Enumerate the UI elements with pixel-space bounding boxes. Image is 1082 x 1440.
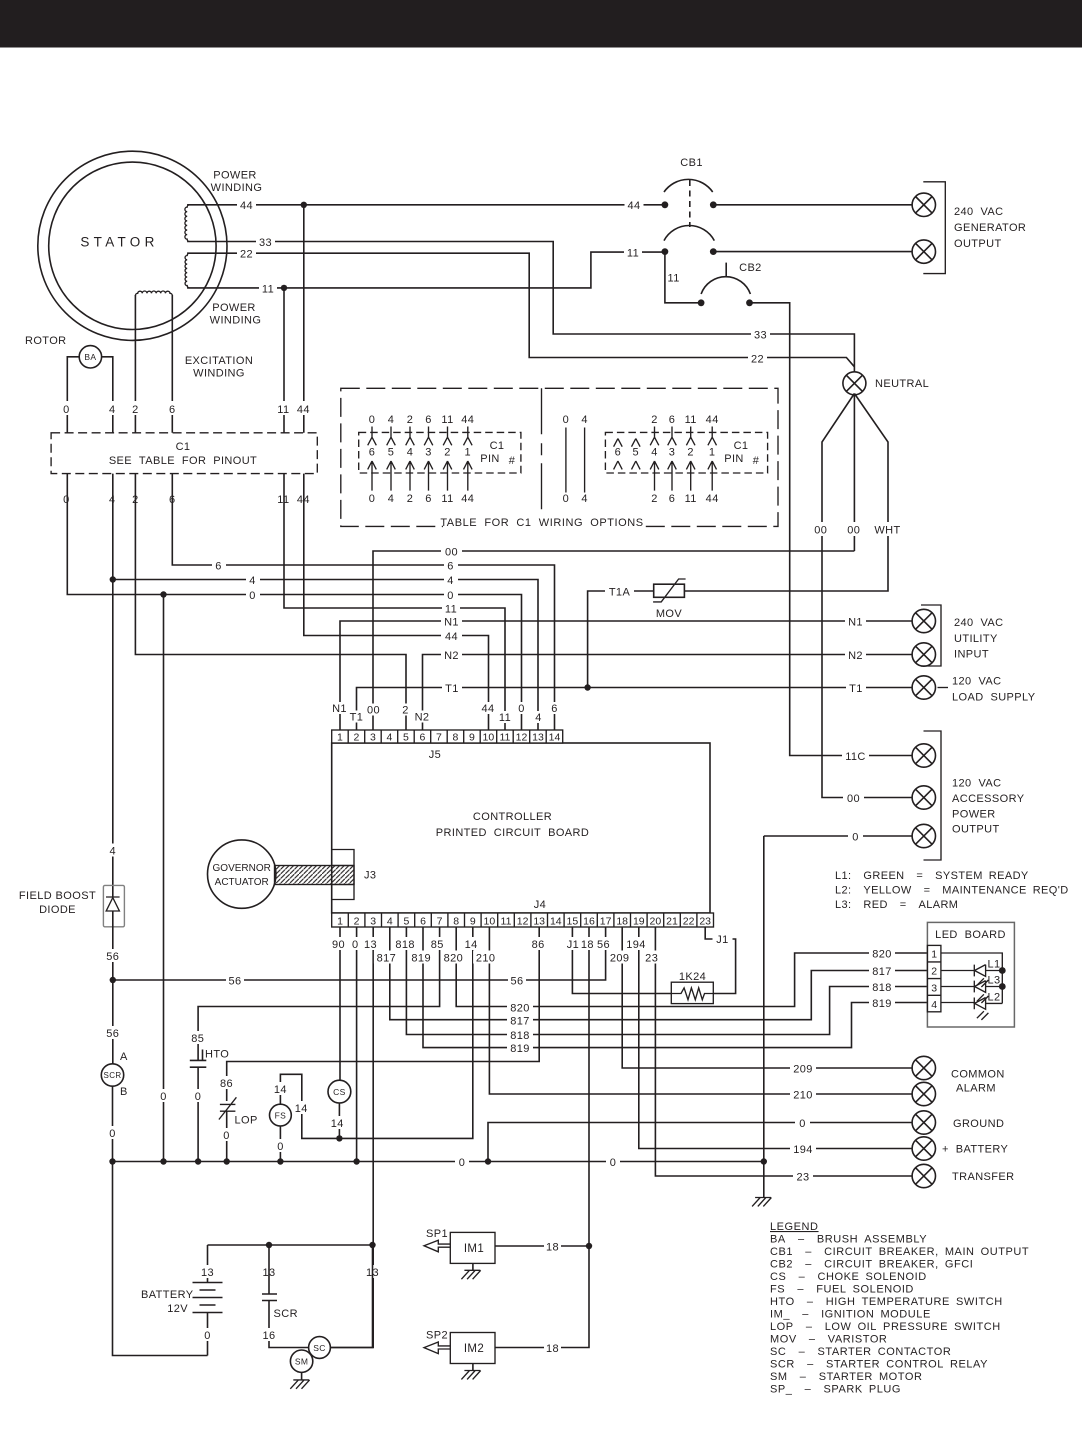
- svg-text:10: 10: [484, 915, 496, 927]
- CB1 tie bar (dashed): [689, 180, 691, 227]
- label 194 (pin19): [624, 937, 649, 950]
- stator inner ring: [49, 162, 216, 329]
- label 11 (CB1 feed): [624, 246, 642, 259]
- label 23 near terminal: [793, 1170, 813, 1183]
- svg-text:CB1: CB1: [680, 157, 703, 169]
- label 11C: [842, 749, 869, 762]
- svg-text:5: 5: [403, 732, 409, 744]
- svg-text:0: 0: [249, 590, 256, 602]
- svg-text:820: 820: [872, 949, 892, 961]
- svg-text:817: 817: [510, 1016, 530, 1028]
- terminal T1: [912, 676, 935, 699]
- svg-text:C1: C1: [734, 440, 749, 452]
- label 818 (pin5): [393, 937, 418, 950]
- svg-text:6: 6: [215, 561, 222, 573]
- label 0 below FS: [274, 1139, 288, 1152]
- wire SCR bottom to battery return: [113, 1086, 208, 1355]
- ground symbol (IM2): [461, 1371, 480, 1380]
- wire 820: J4 pin8 to LED pin1: [456, 927, 927, 1007]
- label N2 on bus: [441, 648, 462, 661]
- svg-text:T1: T1: [849, 683, 863, 695]
- IM1 ground lead: [472, 1263, 474, 1270]
- svg-text:194: 194: [626, 939, 646, 951]
- svg-text:4: 4: [931, 999, 937, 1011]
- svg-text:L1: GREEN = SYSTEM READY: L1: GREEN = SYSTEM READY: [835, 870, 1029, 882]
- junction 56 bus: [110, 977, 116, 983]
- svg-text:CS – CHOKE SOLENOID: CS – CHOKE SOLENOID: [770, 1271, 927, 1283]
- label 85 (pin7): [428, 937, 446, 950]
- svg-text:4: 4: [388, 493, 395, 505]
- terminal 210 common alarm: [912, 1082, 935, 1105]
- svg-text:IM1: IM1: [464, 1243, 484, 1255]
- wire 18: J4 pin16 to IM1/IM2: [495, 927, 589, 1348]
- starter control relay SCR coil: [262, 1245, 309, 1348]
- svg-text:POWER: POWER: [212, 302, 256, 314]
- svg-text:2: 2: [132, 404, 139, 416]
- wire 0: J4 pin2 to 0 bus: [356, 927, 358, 1162]
- svg-text:6: 6: [369, 447, 376, 459]
- terminal 11C: [912, 744, 935, 767]
- label 209 near terminal: [790, 1062, 816, 1075]
- svg-text:817: 817: [872, 966, 892, 978]
- svg-text:IM_ – IGNITION MODULE: IM_ – IGNITION MODULE: [770, 1309, 931, 1321]
- svg-text:MOV: MOV: [656, 608, 683, 620]
- wire BA right to C1 pin 4: [102, 357, 113, 433]
- svg-text:SCR – STARTER CONTROL RELAY: SCR – STARTER CONTROL RELAY: [770, 1359, 988, 1371]
- svg-text:SEE TABLE FOR PINOUT: SEE TABLE FOR PINOUT: [109, 455, 257, 467]
- svg-text:818: 818: [395, 939, 415, 951]
- fuel solenoid FS: [270, 1104, 292, 1126]
- label 209 (pin18): [607, 951, 632, 964]
- svg-text:0: 0: [799, 1118, 806, 1130]
- LED L1: [974, 965, 1002, 977]
- starter contactor SC: [309, 1337, 331, 1359]
- label 820 on wire: [869, 947, 895, 960]
- svg-text:LOAD SUPPLY: LOAD SUPPLY: [952, 692, 1036, 704]
- wire CB1 pole2 to terminal: [713, 251, 912, 253]
- svg-text:1: 1: [709, 447, 716, 459]
- wire 44: C1 to J5 pin10: [304, 474, 489, 730]
- svg-text:EXCITATION: EXCITATION: [185, 355, 253, 367]
- svg-text:14: 14: [549, 732, 561, 744]
- svg-text:819: 819: [510, 1043, 530, 1055]
- label 90: [330, 937, 348, 950]
- svg-text:14: 14: [550, 915, 562, 927]
- svg-text:8: 8: [452, 732, 458, 744]
- label 0 on SCR return: [106, 1126, 120, 1139]
- high temperature switch HTO: [190, 1050, 207, 1068]
- svg-text:13: 13: [364, 939, 377, 951]
- wire pin2 to LED L1: [941, 970, 974, 972]
- svg-text:0: 0: [447, 590, 454, 602]
- connector C1 dashed box: [51, 433, 317, 474]
- SM ground lead: [301, 1372, 303, 1380]
- svg-text:L2: YELLOW = MAINTENANCE RE: L2: YELLOW = MAINTENANCE REQ'D: [835, 885, 1069, 897]
- label 11 on bus: [442, 602, 460, 615]
- CB2 actuator tick: [725, 263, 727, 277]
- bus 4 to J5 pin13: [113, 580, 538, 731]
- ground bus 0 riser to GROUND terminal: [488, 1123, 912, 1162]
- svg-text:5: 5: [633, 447, 640, 459]
- svg-text:6: 6: [551, 703, 558, 715]
- wire T1A: MOV to T1 bus: [588, 591, 654, 688]
- label 00 (center riser): [844, 522, 864, 536]
- svg-text:1: 1: [337, 732, 343, 744]
- svg-text:PIN: PIN: [480, 453, 500, 465]
- spark plug SP1 arrow: [424, 1240, 450, 1252]
- svg-text:6: 6: [420, 915, 426, 927]
- svg-text:44: 44: [461, 414, 474, 426]
- svg-text:209: 209: [793, 1064, 813, 1076]
- svg-text:56: 56: [106, 951, 119, 963]
- svg-text:B: B: [120, 1086, 128, 1098]
- svg-text:817: 817: [377, 953, 397, 965]
- svg-text:23: 23: [645, 953, 658, 965]
- label 210 near terminal: [790, 1088, 816, 1101]
- wire CB1 pole1 to terminal: [713, 204, 912, 206]
- brush assembly BA: [79, 346, 101, 368]
- svg-text:MOV – VARISTOR: MOV – VARISTOR: [770, 1334, 887, 1346]
- svg-text:12: 12: [516, 732, 528, 744]
- terminal 240VAC gen output A: [912, 193, 935, 216]
- svg-text:16: 16: [262, 1330, 275, 1342]
- wire 11 stator to CB1 pole2: [187, 252, 665, 288]
- LED L3: [974, 981, 1002, 993]
- svg-text:0: 0: [277, 1141, 284, 1153]
- label 33 (coil end): [256, 235, 275, 248]
- wire 44 stator to CB1: [187, 204, 665, 206]
- label 6 right: [444, 559, 458, 572]
- battery top lead: [207, 1245, 209, 1283]
- svg-text:0: 0: [852, 832, 859, 844]
- svg-text:CONTROLLER: CONTROLLER: [473, 811, 552, 823]
- svg-text:8: 8: [453, 915, 459, 927]
- svg-text:#: #: [509, 455, 516, 467]
- junction 18 branch: [586, 1243, 592, 1249]
- svg-text:14: 14: [465, 939, 478, 951]
- label 13 (SCR coil): [261, 1265, 278, 1278]
- label 18 (IM2): [544, 1341, 561, 1354]
- starter contactor coil SCR: [101, 1064, 123, 1086]
- svg-text:LOP – LOW OIL PRESSURE SWITC: LOP – LOW OIL PRESSURE SWITCH: [770, 1321, 1001, 1333]
- svg-text:4: 4: [387, 915, 393, 927]
- svg-text:N2: N2: [415, 712, 430, 724]
- label 00 accessory: [843, 791, 864, 804]
- junction SCR coil: [266, 1242, 272, 1248]
- svg-text:10: 10: [483, 732, 495, 744]
- svg-text:FS – FUEL SOLENOID: FS – FUEL SOLENOID: [770, 1284, 914, 1296]
- svg-text:11: 11: [441, 493, 453, 505]
- svg-text:14: 14: [274, 1084, 287, 1096]
- wire CB1 pole2 down to CB2: [665, 252, 701, 303]
- svg-text:STATOR: STATOR: [80, 235, 158, 250]
- label 44 near CB1: [625, 198, 644, 211]
- svg-text:L2: L2: [988, 992, 1001, 1004]
- svg-text:0: 0: [160, 1091, 167, 1103]
- label 56 left: [226, 974, 244, 987]
- svg-text:11: 11: [627, 248, 639, 260]
- label 00 on bus: [441, 545, 462, 558]
- junction dots on 0 bus: [109, 1158, 115, 1164]
- svg-text:11: 11: [441, 414, 453, 426]
- CB1 pole 2 contacts: [662, 248, 669, 255]
- junction 13 riser: [369, 1242, 375, 1248]
- terminal 0 accessory: [912, 824, 935, 847]
- svg-text:11: 11: [499, 732, 510, 744]
- svg-text:210: 210: [793, 1090, 813, 1102]
- svg-text:0: 0: [459, 1157, 466, 1169]
- label T1A: [605, 585, 634, 598]
- bus 56 to J4 pin17: [113, 927, 606, 980]
- bus 0 (bottom): [113, 1161, 764, 1163]
- label 14 above FS: [272, 1082, 289, 1095]
- label 18 (pin16): [579, 937, 596, 950]
- svg-text:33: 33: [754, 330, 767, 342]
- label 14 mid riser: [293, 1101, 310, 1114]
- svg-text:L1: L1: [988, 959, 1001, 971]
- svg-text:INPUT: INPUT: [954, 649, 989, 661]
- svg-text:11C: 11C: [845, 751, 866, 763]
- label 4 left: [246, 573, 260, 586]
- breaker CB2 arc: [701, 277, 750, 294]
- CB1 pole 1 contacts: [662, 201, 669, 208]
- svg-text:44: 44: [706, 414, 719, 426]
- svg-text:11: 11: [445, 604, 457, 616]
- label 194 near terminal: [790, 1142, 816, 1155]
- bracket accessory output: [924, 731, 942, 860]
- label 56 below bus: [104, 1026, 122, 1039]
- ground symbol (SM): [290, 1380, 309, 1389]
- label 0 left: [246, 588, 260, 601]
- wire 22 stator to neutral: [187, 253, 854, 367]
- svg-text:6: 6: [169, 404, 176, 416]
- wire 209: J4 pin18 to terminal: [622, 927, 912, 1068]
- L2 emission marks: [977, 1011, 989, 1020]
- svg-text:21: 21: [666, 915, 678, 927]
- FS lower lead: [279, 1126, 281, 1162]
- label 0 below LOP: [220, 1128, 234, 1141]
- diode symbol: [106, 897, 120, 911]
- battery BATTERY 12V: [193, 1283, 223, 1313]
- svg-text:13: 13: [532, 732, 544, 744]
- label 0 (pin2): [349, 937, 361, 950]
- svg-text:210: 210: [476, 953, 496, 965]
- svg-text:4: 4: [110, 846, 117, 858]
- svg-text:23: 23: [699, 915, 711, 927]
- svg-text:7: 7: [436, 732, 442, 744]
- L1 emission marks: [977, 978, 989, 987]
- svg-text:56: 56: [106, 1028, 119, 1040]
- wire excitation right to C1 pin 6: [171, 295, 173, 433]
- svg-text:C1: C1: [490, 440, 505, 452]
- label 817 (pin4): [374, 951, 399, 964]
- label 11 (coil end): [259, 282, 277, 295]
- junction 11 riser: [281, 285, 287, 291]
- LED L2: [974, 998, 1002, 1010]
- label 817 on wire: [869, 964, 895, 977]
- svg-text:DIODE: DIODE: [39, 904, 76, 916]
- wire 11: C1 to J5 pin11: [284, 474, 505, 730]
- svg-text:18: 18: [616, 915, 628, 927]
- svg-text:11: 11: [501, 915, 512, 927]
- svg-text:4: 4: [249, 575, 256, 587]
- neutral riser 00 (center, to bus): [853, 395, 855, 551]
- label 210 (pin10): [473, 951, 498, 964]
- svg-text:WHT: WHT: [874, 525, 900, 537]
- wire 85: J4 pin7 to HTO: [198, 927, 440, 1060]
- svg-text:GOVERNOR: GOVERNOR: [213, 863, 271, 874]
- label 4 right: [444, 573, 458, 586]
- label J1 (elbow): [713, 933, 733, 945]
- wire 13: J4 pin3 to battery bus and SC: [331, 927, 374, 1348]
- label 819 on bus: [507, 1041, 533, 1054]
- label 44: [237, 198, 256, 211]
- svg-text:1: 1: [337, 915, 343, 927]
- svg-text:0: 0: [563, 414, 570, 426]
- neutral riser 00 (left, to accessory): [822, 394, 912, 798]
- svg-text:4: 4: [388, 414, 395, 426]
- svg-text:194: 194: [793, 1144, 813, 1156]
- svg-text:3: 3: [669, 447, 676, 459]
- svg-text:6: 6: [425, 414, 432, 426]
- field boost diode box: [103, 885, 124, 926]
- svg-text:HTO – HIGH TEMPERATURE SWITC: HTO – HIGH TEMPERATURE SWITCH: [770, 1296, 1003, 1308]
- excitation winding coil: [135, 291, 172, 296]
- wire pin3 to LED L3: [941, 986, 974, 988]
- svg-text:GENERATOR: GENERATOR: [954, 222, 1026, 234]
- power winding coil 1: [185, 205, 190, 242]
- svg-text:5: 5: [388, 447, 395, 459]
- wire 11 riser to C1: [283, 288, 285, 433]
- svg-text:4: 4: [581, 414, 588, 426]
- svg-text:22: 22: [240, 249, 253, 261]
- svg-text:T1: T1: [445, 683, 459, 695]
- resistor 1K24 box: [671, 982, 713, 1003]
- svg-text:J1: J1: [716, 934, 728, 946]
- ignition module IM2 box: [450, 1333, 495, 1364]
- label 0 accessory: [848, 830, 863, 843]
- svg-text:44: 44: [481, 703, 494, 715]
- svg-text:6: 6: [669, 493, 676, 505]
- svg-text:CS: CS: [333, 1087, 346, 1097]
- wire 86: J4 pin13 to LOP: [227, 927, 540, 1101]
- label 817 on bus: [507, 1014, 533, 1027]
- label 819 (pin6): [409, 951, 434, 964]
- svg-text:L3: RED = ALARM: L3: RED = ALARM: [835, 899, 958, 911]
- svg-text:818: 818: [510, 1030, 530, 1042]
- svg-text:9: 9: [469, 732, 475, 744]
- svg-text:BA – BRUSH ASSEMBLY: BA – BRUSH ASSEMBLY: [770, 1234, 927, 1246]
- labels above C1: 0 4 2 6 11 44: [59, 401, 74, 415]
- CB2 contacts: [698, 299, 705, 306]
- wire 4: C1 down through 4-bus: [112, 474, 114, 897]
- label T1 near terminal: [846, 681, 866, 694]
- label 16: [261, 1328, 278, 1341]
- breaker CB1 pole 1 arc: [664, 179, 713, 192]
- LED board connector: [927, 945, 941, 1011]
- breaker CB1 pole 2 arc: [664, 226, 714, 241]
- svg-text:4: 4: [109, 404, 116, 416]
- actuator shaft (hatched): [275, 866, 355, 885]
- svg-text:LED BOARD: LED BOARD: [935, 929, 1006, 941]
- svg-text:N1: N1: [444, 617, 459, 629]
- svg-text:2: 2: [651, 493, 658, 505]
- svg-text:3: 3: [370, 732, 376, 744]
- label TABLE FOR C1 WIRING OPTIONS: [443, 514, 643, 528]
- label 18 (IM1): [544, 1240, 561, 1253]
- connector J5: [332, 730, 563, 743]
- terminal 209 common alarm: [912, 1056, 935, 1079]
- svg-text:J5: J5: [429, 749, 441, 761]
- terminal 240VAC gen output B: [912, 240, 935, 263]
- svg-text:1: 1: [465, 447, 472, 459]
- wire pin4 to LED L2: [941, 1002, 974, 1004]
- svg-text:15: 15: [567, 915, 579, 927]
- svg-text:0: 0: [204, 1330, 211, 1342]
- left inner dashed box (C1 pin #): [359, 432, 521, 473]
- svg-text:22: 22: [751, 354, 764, 366]
- controller printed circuit board: [332, 743, 710, 913]
- svg-text:18: 18: [546, 1242, 559, 1254]
- svg-text:56: 56: [597, 939, 610, 951]
- junction L3 anode: [999, 983, 1006, 990]
- svg-text:0: 0: [563, 493, 570, 505]
- svg-text:OUTPUT: OUTPUT: [954, 238, 1002, 250]
- right inner dashed box (C1 pin #): [605, 432, 767, 473]
- label 820 (pin8): [441, 951, 466, 964]
- svg-text:56: 56: [228, 976, 241, 988]
- label 0 (battery return): [201, 1328, 215, 1341]
- svg-text:85: 85: [191, 1033, 204, 1045]
- svg-text:GROUND: GROUND: [953, 1118, 1004, 1130]
- svg-text:11: 11: [262, 284, 274, 296]
- connector J4: [332, 913, 714, 927]
- svg-text:LEGEND: LEGEND: [770, 1221, 819, 1233]
- svg-text:NEUTRAL: NEUTRAL: [875, 378, 929, 390]
- svg-text:6: 6: [615, 447, 622, 459]
- bracket utility input: [921, 605, 941, 666]
- LED common wire from pin1: [941, 953, 1002, 1003]
- svg-text:44: 44: [445, 631, 458, 643]
- svg-text:11: 11: [277, 404, 289, 416]
- label 819 on wire: [869, 996, 895, 1009]
- svg-text:00: 00: [847, 525, 860, 537]
- svg-text:TABLE FOR C1 WIRING OPTION: TABLE FOR C1 WIRING OPTIONS: [440, 517, 643, 529]
- svg-text:POWER: POWER: [213, 170, 257, 182]
- label 0 on bottom bus (left): [455, 1155, 469, 1168]
- 1K24 zigzag: [672, 988, 715, 1000]
- svg-text:BA: BA: [84, 352, 96, 362]
- starter motor SM: [290, 1350, 312, 1372]
- wire 6: C1 to J5 pin14: [172, 474, 554, 730]
- svg-text:2: 2: [402, 705, 409, 717]
- svg-text:00: 00: [367, 705, 380, 717]
- svg-text:6: 6: [425, 493, 432, 505]
- label 56 above bus: [104, 949, 122, 962]
- label N2 near terminal: [845, 648, 866, 661]
- terminal TRANSFER: [912, 1164, 935, 1187]
- ground symbol (main): [752, 1198, 771, 1207]
- svg-text:14: 14: [331, 1118, 344, 1130]
- svg-text:0: 0: [518, 703, 525, 715]
- svg-text:N2: N2: [848, 650, 863, 662]
- label 0 on bottom bus (right): [606, 1155, 620, 1168]
- svg-text:T1: T1: [350, 712, 364, 724]
- svg-text:11: 11: [685, 414, 697, 426]
- svg-text:12V: 12V: [167, 1303, 188, 1315]
- svg-text:0: 0: [369, 414, 376, 426]
- svg-text:SCR: SCR: [103, 1071, 121, 1080]
